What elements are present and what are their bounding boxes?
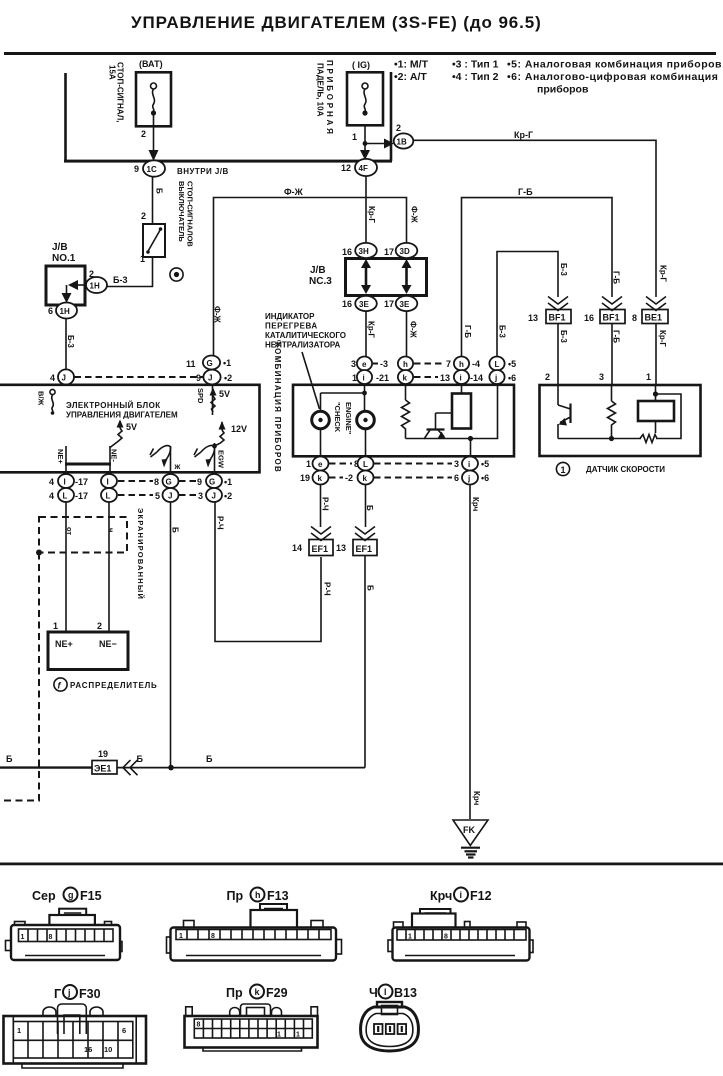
svg-text:f: f [58, 681, 62, 691]
ECU box ЭЛЕКТРОННЫЙ БЛОК УПРАВЛЕНИЯ ДВИГАТЕЛЕМ [0, 385, 260, 473]
svg-text:J: J [168, 492, 172, 501]
node 1H right [86, 277, 107, 293]
node 1B [394, 133, 414, 148]
svg-text:8: 8 [49, 934, 53, 941]
svg-text:•1: •1 [223, 358, 231, 368]
svg-text:Ф-Ж: Ф-Ж [409, 321, 418, 338]
svg-text:2: 2 [396, 123, 401, 133]
svg-text:ПАДЕЛЬ, 10А: ПАДЕЛЬ, 10А [316, 63, 325, 117]
svg-text:•5: •5 [508, 359, 516, 369]
svg-text:Пр: Пр [226, 986, 243, 1000]
svg-text:3: 3 [454, 459, 459, 469]
stop light switch ВЫКЛЮЧАТЕЛЬ СТОП-СИГНАЛОВ [143, 181, 195, 257]
ECU SPD input with 5V pull-up [196, 384, 230, 415]
svg-text:1: 1 [17, 1026, 21, 1035]
svg-text:СТОП-СИГНАЛОВ: СТОП-СИГНАЛОВ [186, 181, 195, 247]
wire Б-3 from switch pin1 to J/B No.1 [107, 254, 153, 287]
svg-text:-17: -17 [75, 477, 88, 487]
wire Кр-Г 3E to meter 3e [366, 311, 376, 357]
connector label Г j F30 [54, 985, 101, 1001]
svg-text:5V: 5V [219, 389, 230, 399]
svg-text:L: L [106, 492, 111, 501]
connector label Пр k F29 [226, 985, 288, 1001]
svg-text:1: 1 [646, 372, 651, 382]
svg-text:•3 : Тип 1: •3 : Тип 1 [452, 59, 499, 71]
ground symbol [461, 848, 480, 858]
svg-text:5V: 5V [126, 422, 137, 432]
svg-text:1H: 1H [90, 282, 100, 291]
svg-text:J: J [208, 374, 212, 383]
svg-text:NO.1: NO.1 [52, 253, 76, 264]
svg-text:F29: F29 [266, 986, 288, 1000]
svg-text:ПРИБОРНАЯ: ПРИБОРНАЯ [325, 60, 334, 137]
svg-text:-17: -17 [75, 491, 88, 501]
svg-text:e: e [362, 360, 367, 369]
wire Б-3 down to node 4J [66, 319, 75, 370]
svg-text:•6: •6 [481, 473, 489, 483]
svg-text:ВЫКЛЮЧАТЕЛЬ: ВЫКЛЮЧАТЕЛЬ [177, 181, 186, 242]
svg-text:NE-: NE- [110, 449, 119, 462]
node 1H bottom pin 6 [48, 303, 77, 319]
wire Ф-Ж 3E to meter 3h [407, 311, 418, 357]
svg-text:"CHECK: "CHECK [333, 402, 342, 433]
svg-text:Г: Г [54, 987, 61, 1001]
wire Кр-Г from 1B to right edge [413, 130, 667, 297]
svg-text:EF1: EF1 [312, 544, 329, 554]
svg-text:•1: М/Т: •1: М/Т [394, 59, 429, 71]
svg-text:Кр-Г: Кр-Г [658, 330, 667, 347]
svg-text:BF1: BF1 [549, 313, 566, 323]
svg-text:Г-Б: Г-Б [612, 330, 621, 343]
svg-text:Крч: Крч [472, 791, 481, 806]
svg-text:Б: Б [366, 585, 375, 591]
wire Кр-Г to sensor pin1 [646, 324, 667, 386]
svg-text:1: 1 [561, 465, 566, 475]
indicator label ИНДИКАТОР ПЕРЕГРЕВА КАТАЛИТИЧЕСКОГО НЕЙТРАЛИЗАТОРА [265, 312, 346, 409]
connector F15 drawing [6, 909, 123, 960]
svg-text:NC.3: NC.3 [309, 276, 332, 287]
svg-text:14: 14 [292, 543, 302, 553]
svg-text:NE+: NE+ [55, 639, 73, 649]
svg-text:BE1: BE1 [645, 313, 663, 323]
svg-text:3: 3 [198, 491, 203, 501]
indicator lamp catalyst overheat [312, 411, 330, 457]
svg-text:19: 19 [98, 749, 108, 759]
svg-text:Б-3: Б-3 [113, 275, 127, 285]
svg-text:Кр-Г: Кр-Г [659, 265, 668, 282]
svg-text:Б-3: Б-3 [66, 335, 75, 348]
svg-text:Б: Б [171, 527, 180, 533]
svg-text:(ВАТ): (ВАТ) [139, 59, 163, 69]
wire Б meter 2k to 13EF1 [365, 485, 374, 528]
combination meter label КОМБИНАЦИЯ ПРИБОРОВ [273, 342, 282, 473]
svg-text:-2: -2 [345, 473, 353, 483]
svg-text:Кр-Г: Кр-Г [367, 206, 376, 223]
ECU pin row 1: 4(I) -17(I) -8(G) -9(G) *1 [49, 474, 232, 488]
svg-text:Б: Б [155, 188, 164, 194]
ECU 5V pull-up near NE- [110, 420, 137, 448]
svg-text:h: h [255, 890, 261, 900]
svg-text:•2: А/Т: •2: А/Т [394, 71, 427, 83]
svg-text:17: 17 [384, 247, 394, 257]
svg-text:ЭЕ1: ЭЕ1 [94, 764, 111, 774]
svg-text:Б: Б [6, 754, 13, 764]
svg-text:L: L [495, 360, 500, 369]
top border rule [4, 52, 716, 55]
svg-text:J: J [212, 492, 216, 501]
svg-text:-14: -14 [470, 373, 483, 383]
ECU internal В/Ж stub [37, 389, 56, 414]
meter pin row bottom 2: 19(k) -2(k) ---6(j) *6 [300, 471, 489, 485]
meter pin row bottom 1: 1(e) --8(L) ---3(i) *5 [306, 457, 489, 471]
shielded cable dashed box [36, 508, 145, 600]
svg-text:4: 4 [49, 491, 54, 501]
svg-text:-21: -21 [376, 373, 389, 383]
combination meter box [293, 385, 514, 457]
svg-text:приборов: приборов [537, 84, 589, 96]
svg-text:SPD: SPD [196, 388, 205, 404]
svg-text:ПЕРЕГРЕВА: ПЕРЕГРЕВА [265, 322, 318, 331]
svg-text:ч: ч [107, 528, 116, 532]
svg-text:4F: 4F [359, 164, 368, 173]
svg-text:2: 2 [141, 211, 146, 221]
svg-text:10: 10 [104, 1045, 112, 1054]
meter output transistor [406, 384, 498, 457]
svg-text:FK: FK [463, 825, 475, 835]
node 3E pin 17 [384, 296, 417, 311]
svg-text:i: i [460, 374, 462, 383]
svg-text:12: 12 [341, 163, 351, 173]
svg-text:3: 3 [351, 359, 356, 369]
svg-text:7: 7 [446, 359, 451, 369]
svg-text:1: 1 [352, 132, 357, 142]
svg-text:Б: Б [137, 754, 144, 764]
switch position mark [170, 268, 183, 281]
shield drain dashed wire [0, 553, 39, 801]
svg-text:k: k [363, 474, 368, 483]
svg-text:13: 13 [440, 373, 450, 383]
fuse ПРИБОРНАЯ ПАНЕЛЬ 10A [316, 60, 384, 142]
ECU pin row 2: 4(L) -17(L) -5(J) -3(J) *2 [49, 488, 232, 502]
wire Б from 13EF1 down to ground bus corner [365, 556, 375, 768]
meter pin row top 2: 1(i) -21(k) --13(i) -14(j) *6 [352, 370, 516, 384]
svg-text:Б-3: Б-3 [498, 325, 507, 338]
meter speedometer coil [452, 384, 471, 429]
svg-text:2: 2 [97, 621, 102, 631]
svg-text:1: 1 [408, 934, 412, 941]
svg-text:ж: ж [174, 462, 181, 471]
svg-text:•5: Аналоговая комбинация приб: •5: Аналоговая комбинация приборов [507, 59, 722, 71]
sensor reed element [612, 385, 682, 443]
svg-text:J/B: J/B [52, 242, 68, 253]
dashed link 4J to 9J [75, 376, 204, 378]
node 3D pin 17 [384, 243, 417, 258]
svg-text:G: G [207, 359, 213, 368]
wire Б from ECU 5J down to ground bus [171, 502, 180, 766]
svg-text:6: 6 [48, 306, 53, 316]
svg-text:k: k [318, 474, 323, 483]
svg-text:8: 8 [211, 933, 215, 940]
wire fuse15A pin2 to node 1C [149, 126, 159, 161]
svg-text:6: 6 [454, 473, 459, 483]
svg-text:G: G [166, 478, 172, 487]
svg-text:8: 8 [632, 313, 637, 323]
svg-text:В/Ж: В/Ж [37, 391, 46, 406]
svg-text:Г-Б: Г-Б [463, 325, 472, 338]
svg-text:КОМБИНАЦИЯ ПРИБОРОВ: КОМБИНАЦИЯ ПРИБОРОВ [273, 342, 282, 473]
svg-text:F12: F12 [470, 889, 492, 903]
ECU output transistor Ж [150, 446, 181, 474]
svg-text:NE−: NE− [99, 639, 117, 649]
svg-text:1: 1 [277, 1032, 281, 1039]
svg-text:8: 8 [197, 1022, 201, 1029]
meter pin row top 1: 3(e) -3(h) --7(h) -4(L) *5 [351, 357, 516, 371]
svg-text:•2: •2 [224, 491, 232, 501]
ground bus line Б [0, 754, 365, 770]
svg-text:L: L [63, 492, 68, 501]
svg-text:•6: •6 [508, 373, 516, 383]
connector F13 drawing [167, 904, 342, 961]
svg-text:8: 8 [154, 477, 159, 487]
svg-text:k: k [403, 374, 408, 383]
ECU NE+ NE- stubs [56, 446, 119, 474]
svg-text:УПРАВЛЕНИЕ ДВИГАТЕЛЕМ (3S-FE): УПРАВЛЕНИЕ ДВИГАТЕЛЕМ (3S-FE) (до 96.5) [131, 13, 542, 32]
svg-text:16: 16 [342, 299, 352, 309]
svg-text:Р-Ч: Р-Ч [216, 516, 225, 530]
connector label Ч l B13 [369, 985, 417, 1001]
svg-text:Крч: Крч [430, 889, 452, 903]
svg-text:1: 1 [140, 254, 145, 264]
svg-text:Ч: Ч [369, 986, 378, 1000]
wire Крч meter 6j to FK ground [470, 485, 481, 820]
svg-text:J: J [62, 374, 66, 383]
svg-text:Кр-Г: Кр-Г [367, 321, 376, 338]
svg-text:ВНУТРИ J/B: ВНУТРИ J/B [177, 167, 229, 176]
svg-text:16: 16 [342, 247, 352, 257]
wire Р-Ч meter 19k to 14EF1 [321, 485, 330, 528]
svg-text:-3: -3 [380, 359, 388, 369]
svg-text:Кр-Г: Кр-Г [514, 130, 533, 140]
svg-text:j: j [494, 374, 497, 383]
wire NE- ECU to distributor [97, 502, 109, 632]
svg-text:F30: F30 [79, 987, 101, 1001]
svg-text:Б-3: Б-3 [559, 263, 568, 276]
wire Б-3 to sensor pin2 [545, 324, 568, 386]
svg-text:•4 : Тип 2: •4 : Тип 2 [452, 71, 499, 83]
node 9J variant 2 [196, 370, 232, 385]
connector F30 drawing [4, 1004, 147, 1068]
svg-text:( IG): ( IG) [352, 60, 370, 70]
connector 19 BE1 on ground bus [92, 749, 138, 775]
svg-text:g: g [68, 890, 74, 900]
connector 8 BE1 [632, 297, 668, 324]
svg-text:Р-Ч: Р-Ч [321, 497, 330, 511]
svg-text:3D: 3D [400, 247, 410, 256]
svg-text:1C: 1C [147, 165, 157, 174]
wire Г-Б from meter 7h up and right to 16BF1 [462, 187, 621, 357]
svg-text:NE+: NE+ [56, 449, 65, 464]
svg-text:Б: Б [365, 505, 374, 511]
svg-text:1H: 1H [60, 307, 70, 316]
svg-text:e: e [318, 460, 323, 469]
svg-text:1: 1 [21, 934, 25, 941]
node 4F pin 12 [341, 159, 377, 176]
svg-text:BF1: BF1 [603, 313, 620, 323]
svg-text:L: L [363, 460, 368, 469]
svg-text:j: j [67, 988, 71, 998]
svg-text:Ф-Ж: Ф-Ж [213, 306, 222, 323]
svg-text:УПРАВЛЕНИЯ ДВИГАТЕЛЕМ: УПРАВЛЕНИЯ ДВИГАТЕЛЕМ [66, 411, 178, 420]
svg-text:1: 1 [53, 621, 58, 631]
svg-text:12V: 12V [231, 424, 247, 434]
wire Г-Б to sensor pin3 [599, 324, 621, 386]
connector 13 EF1 [336, 527, 377, 556]
connector 16 BF1 [584, 297, 625, 324]
svg-text:8: 8 [444, 934, 448, 941]
node 11G variant 1 [186, 356, 231, 370]
svg-text:4: 4 [49, 477, 54, 487]
svg-text:5: 5 [155, 491, 160, 501]
svg-text:I: I [107, 478, 109, 487]
svg-text:ИНДИКАТОР: ИНДИКАТОР [265, 312, 315, 321]
svg-text:2: 2 [545, 372, 550, 382]
ground point FK [453, 820, 488, 846]
svg-text:16: 16 [84, 1045, 92, 1054]
connector label Крч i F12 [430, 888, 492, 904]
J/B NO.1 internal arrow path [62, 280, 87, 303]
junction block J/B inside border right [390, 72, 393, 161]
J/B NO.3 internal arrows [361, 259, 412, 294]
wire fuse10A pin1 down to node 4F [360, 126, 370, 161]
connector B13 drawing [361, 1002, 419, 1051]
svg-text:1: 1 [306, 459, 311, 469]
svg-text:Ф-Ж: Ф-Ж [410, 206, 419, 223]
node 3H pin 16 [342, 243, 377, 258]
node 1C pin 9 [134, 160, 165, 176]
svg-text:2: 2 [141, 129, 146, 139]
svg-text:1B: 1B [397, 138, 407, 147]
svg-text:9: 9 [197, 477, 202, 487]
svg-text:3E: 3E [400, 300, 410, 309]
speed sensor box ДАТЧИК СКОРОСТИ [540, 385, 701, 476]
svg-text:B13: B13 [394, 986, 417, 1000]
svg-text:ENGINE": ENGINE" [344, 402, 353, 435]
svg-text:I: I [64, 478, 66, 487]
svg-text:Сер: Сер [32, 889, 56, 903]
svg-text:9: 9 [196, 373, 201, 383]
svg-text:Пр: Пр [227, 889, 244, 903]
svg-text:1: 1 [296, 1032, 300, 1039]
wire junction to node 1B pin 2 [365, 123, 401, 149]
relay block J/B NO.3 [309, 259, 427, 296]
svg-text:-4: -4 [472, 359, 480, 369]
wire Б-3 from meter 4L up and right to 13BF1 [497, 252, 568, 357]
svg-text:17: 17 [384, 299, 394, 309]
svg-text:13: 13 [528, 313, 538, 323]
svg-text:13: 13 [336, 543, 346, 553]
svg-text:EGW: EGW [217, 450, 226, 469]
svg-text:ЭКРАНИРОВАННЫЙ: ЭКРАНИРОВАННЫЙ [136, 508, 145, 600]
connector F12 drawing [388, 909, 533, 961]
svg-text:15А: 15А [108, 65, 117, 80]
svg-text:Р-Ч: Р-Ч [323, 582, 332, 596]
svg-text:ДАТЧИК СКОРОСТИ: ДАТЧИК СКОРОСТИ [586, 465, 665, 474]
svg-text:Б: Б [206, 754, 213, 764]
svg-text:11: 11 [186, 359, 196, 369]
meter internal resistor [402, 384, 410, 439]
wire Ф-Ж from 4F down / across / down to 3D [213, 176, 419, 356]
svg-text:6: 6 [122, 1026, 126, 1035]
svg-text:16: 16 [584, 313, 594, 323]
svg-text:Б-3: Б-3 [559, 330, 568, 343]
svg-text:Г-Б: Г-Б [518, 187, 533, 197]
svg-text:i: i [468, 460, 470, 469]
connector label Пр h F13 [227, 888, 289, 904]
svg-text:19: 19 [300, 473, 310, 483]
svg-text:k: k [255, 987, 261, 997]
connector F29 drawing [185, 1004, 318, 1051]
wire Р-Ч from ECU 3J down right and up to 14EF1 [215, 502, 332, 642]
bottom section rule [0, 863, 723, 866]
junction block J/B inside border left [64, 73, 67, 161]
svg-text:•2: •2 [224, 373, 232, 383]
node 3E pin 16 [342, 296, 377, 311]
svg-text:9: 9 [134, 164, 139, 174]
svg-text:J/B: J/B [310, 265, 326, 276]
svg-text:•1: •1 [224, 477, 232, 487]
svg-text:3E: 3E [359, 300, 369, 309]
ECU output transistor EGW with 12V pull-up [194, 421, 247, 474]
wire Б from 1C to stop light switch [141, 177, 164, 224]
svg-text:G: G [209, 478, 215, 487]
svg-text:ЭЛЕКТРОННЫЙ БЛОК: ЭЛЕКТРОННЫЙ БЛОК [66, 401, 161, 410]
relay block J/B NO.1 [46, 242, 94, 305]
connector 13 BF1 [528, 297, 571, 324]
junction block J/B bottom border (ВНУТРИ J/B line) [64, 160, 392, 176]
svg-text:i: i [363, 374, 365, 383]
svg-text:•6: Аналогово-цифровая комбина: •6: Аналогово-цифровая комбинация [507, 71, 718, 83]
legend [394, 59, 722, 96]
svg-text:EF1: EF1 [356, 544, 373, 554]
sensor resistor [608, 385, 616, 441]
svg-text:•5: •5 [481, 459, 489, 469]
svg-text:4: 4 [50, 373, 55, 383]
distributor РАСПРЕДЕЛИТЕЛЬ [48, 632, 158, 691]
svg-text:РАСПРЕДЕЛИТЕЛЬ: РАСПРЕДЕЛИТЕЛЬ [70, 681, 158, 690]
sensor transistor [558, 385, 612, 439]
svg-text:Г-Б: Г-Б [612, 271, 621, 284]
wire NE+ ECU to distributor [53, 502, 66, 632]
meter internals: lamp bus [321, 384, 367, 411]
svg-text:l: l [384, 987, 387, 997]
svg-text:j: j [467, 474, 470, 483]
svg-text:1: 1 [179, 933, 183, 940]
indicator lamp CHECK ENGINE [333, 402, 374, 457]
svg-text:F13: F13 [267, 889, 289, 903]
svg-text:Крч: Крч [471, 497, 480, 512]
connector label Сер g F15 [32, 888, 102, 904]
svg-text:КАТАЛИТИЧЕСКОГО: КАТАЛИТИЧЕСКОГО [265, 331, 346, 340]
svg-text:h: h [403, 360, 408, 369]
svg-text:3H: 3H [359, 247, 369, 256]
svg-text:Ф-Ж: Ф-Ж [284, 187, 304, 197]
title [131, 13, 542, 32]
fuse СТОП-СИГНАЛ 15A [108, 59, 172, 139]
svg-text:h: h [459, 360, 464, 369]
svg-text:F15: F15 [80, 889, 102, 903]
svg-text:3: 3 [599, 372, 604, 382]
svg-text:i: i [460, 890, 463, 900]
